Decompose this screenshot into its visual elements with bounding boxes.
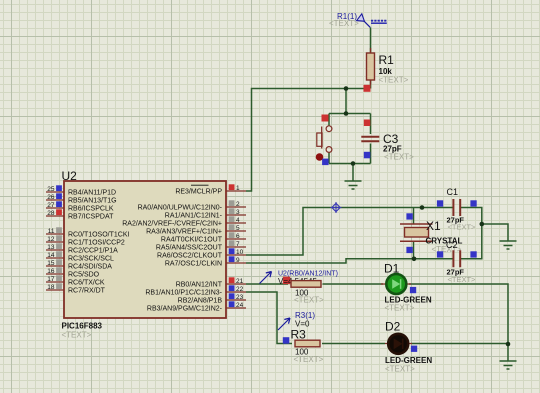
svg-text:RC5/SDO: RC5/SDO	[68, 272, 100, 279]
pin 28 (RB7/ICSPDAT)	[46, 215, 64, 217]
node junction crystal right/ground	[480, 222, 485, 227]
svg-text:RC0/T1OSO/T1CKI: RC0/T1OSO/T1CKI	[68, 232, 130, 239]
svg-text:RC1/T1OSI/CCP2: RC1/T1OSI/CCP2	[68, 240, 125, 247]
button bottom pin state (blue)	[322, 159, 329, 166]
resistor R3 (100)	[295, 340, 320, 347]
pin 13 (RC2/CCP1/P1A)	[46, 249, 64, 251]
svg-text:17: 17	[47, 276, 55, 283]
wire OSC2 net: pin10 to crystal top rail	[246, 208, 453, 256]
D1 right pin state (blue)	[410, 287, 416, 293]
svg-text:24: 24	[236, 302, 244, 309]
wire crystal stubs	[413, 208, 415, 259]
pin 18 (RC7/RX/DT)	[46, 289, 64, 291]
pin 9 (RA7/OSC1/CLKIN)	[226, 262, 246, 264]
pin 21 (RB0/AN12/INT)	[226, 283, 246, 285]
pin 22 (RB1/AN10/P1C/C12IN3-)	[226, 291, 246, 293]
probe dashes value	[371, 20, 386, 22]
C1 left pin state (blue)	[437, 200, 443, 206]
node junction MCLR/button branch	[344, 86, 349, 91]
pin 4 (RA2/AN2/VREF-/CVREF/C2IN+)	[226, 222, 246, 224]
svg-text:1: 1	[236, 185, 240, 192]
capacitor C1	[453, 199, 460, 216]
pin 2 (RA0/AN0/ULPWU/C12IN0-)	[226, 206, 246, 208]
svg-text:<TEXT>: <TEXT>	[448, 275, 477, 284]
pin 17 (RC6/TX/CK)	[46, 281, 64, 283]
push button (reset)	[326, 126, 332, 132]
svg-text:RC3/SCK/SCL: RC3/SCK/SCL	[68, 256, 114, 263]
wire R1 top to probe	[370, 28, 372, 89]
C2 right pin state (blue)	[470, 251, 476, 257]
wire branch to button/C3 rail	[329, 89, 371, 182]
C2 left pin state (blue)	[437, 251, 443, 257]
svg-text:RA2/AN2/VREF-/CVREF/C2IN+: RA2/AN2/VREF-/CVREF/C2IN+	[122, 221, 222, 228]
net marker (diamond crosshair)	[332, 203, 340, 211]
node junction crystal top rail	[420, 205, 425, 210]
ground right of crystal	[500, 241, 517, 249]
svg-text:RC2/CCP1/P1A: RC2/CCP1/P1A	[68, 248, 118, 255]
svg-text:RB1/AN10/P1C/C12IN3-: RB1/AN10/P1C/C12IN3-	[145, 290, 222, 297]
voltage probe U2(RB0/AN12/INT)	[260, 272, 272, 284]
svg-text:27: 27	[47, 202, 55, 209]
svg-text:RA6/OSC2/CLKOUT: RA6/OSC2/CLKOUT	[157, 253, 223, 260]
ground bottom right LEDs	[500, 361, 517, 369]
svg-text:RA5/AN4/SS/C2OUT: RA5/AN4/SS/C2OUT	[156, 245, 223, 252]
svg-text:RA4/T0CKI/C1OUT: RA4/T0CKI/C1OUT	[161, 237, 223, 244]
svg-text:D2: D2	[385, 320, 401, 334]
voltage probe R1(1)	[363, 20, 370, 27]
svg-text:2: 2	[236, 201, 240, 208]
pin 12 (RC1/T1OSI/CCP2)	[46, 241, 64, 243]
svg-text:21: 21	[236, 278, 244, 285]
C1 right pin state (blue)	[470, 200, 476, 206]
svg-text:RB6/ICSPCLK: RB6/ICSPCLK	[68, 206, 114, 213]
pin 27 (RB6/ICSPCLK)	[46, 207, 64, 209]
svg-text:<TEXT>: <TEXT>	[294, 355, 324, 364]
svg-text:16: 16	[47, 268, 55, 275]
svg-text:RC6/TX/CK: RC6/TX/CK	[68, 280, 105, 287]
pin 25 (RB4/AN11/P1D)	[46, 191, 64, 193]
svg-text:10: 10	[236, 249, 244, 256]
svg-text:13: 13	[47, 244, 55, 251]
svg-text:<TEXT>: <TEXT>	[329, 19, 359, 28]
svg-text:15: 15	[47, 260, 55, 267]
button top pin state (red)	[322, 115, 329, 122]
pin 24 (RB3/AN9/PGM/C12IN2-)	[226, 307, 246, 309]
wire pin21 to R2 to D1 to ground	[246, 284, 508, 344]
pin 6 (RA4/T0CKI/C1OUT)	[226, 238, 246, 240]
LED D1 (lit green)	[381, 283, 411, 285]
node junction button rail to ground	[351, 161, 356, 166]
svg-text:PIC16F883: PIC16F883	[62, 322, 103, 331]
wire pin22 to R3 to D2 to ground	[246, 292, 508, 361]
svg-text:D1: D1	[384, 262, 400, 276]
pin 7 (RA5/AN4/SS/C2OUT)	[226, 246, 246, 248]
svg-text:RA3/AN3/VREF+/C1IN+: RA3/AN3/VREF+/C1IN+	[146, 229, 222, 236]
capacitor C3	[361, 136, 379, 138]
svg-text:26: 26	[47, 194, 55, 201]
svg-text:RA0/AN0/ULPWU/C12IN0-: RA0/AN0/ULPWU/C12IN0-	[138, 205, 223, 212]
svg-text:5: 5	[236, 225, 240, 232]
svg-text:<TEXT>: <TEXT>	[385, 364, 415, 373]
svg-text:12: 12	[47, 236, 55, 243]
node junction button rail top	[344, 111, 349, 116]
svg-text:RB0/AN12/INT: RB0/AN12/INT	[176, 282, 223, 289]
svg-text:RB7/ICSPDAT: RB7/ICSPDAT	[68, 214, 114, 221]
pin 16 (RC5/SDO)	[46, 273, 64, 275]
pin 1 (RE3/MCLR/PP)	[226, 190, 246, 192]
resistor R1	[370, 48, 372, 85]
voltage probe R3(1)	[278, 318, 290, 330]
D2 right pin state (blue)	[411, 346, 417, 352]
pin 5 (RA3/AN3/VREF+/C1IN+)	[226, 230, 246, 232]
svg-text:RB2/AN8/P1B: RB2/AN8/P1B	[178, 298, 223, 305]
node junction crystal bottom rail	[412, 257, 417, 262]
svg-text:28: 28	[47, 210, 55, 217]
svg-text:C1: C1	[447, 187, 459, 197]
svg-text:25: 25	[47, 186, 55, 193]
svg-text:X1: X1	[426, 219, 441, 233]
crystal top pin state (blue)	[406, 213, 412, 219]
svg-text:<TEXT>: <TEXT>	[448, 223, 477, 232]
pin 11 (RC0/T1OSO/T1CKI)	[46, 233, 64, 235]
svg-text:RB3/AN9/PGM/C12IN2-: RB3/AN9/PGM/C12IN2-	[147, 306, 223, 313]
svg-text:11: 11	[48, 228, 55, 235]
svg-text:6: 6	[236, 233, 240, 240]
svg-text:22: 22	[236, 286, 244, 293]
svg-text:RA7/OSC1/CLKIN: RA7/OSC1/CLKIN	[165, 261, 222, 268]
svg-text:RB5/AN13/T1G: RB5/AN13/T1G	[68, 198, 117, 205]
pin 26 (RB5/AN13/T1G)	[46, 199, 64, 201]
svg-text:<TEXT>: <TEXT>	[62, 331, 92, 340]
svg-text:U2: U2	[62, 169, 78, 183]
pin 23 (RB2/AN8/P1B)	[226, 299, 246, 301]
crystal X1	[400, 224, 433, 241]
svg-text:RA1/AN1/C12IN1-: RA1/AN1/C12IN1-	[165, 213, 223, 220]
wire OSC1 net: pin9 to crystal bottom rail	[246, 259, 453, 263]
svg-text:23: 23	[236, 294, 244, 301]
crystal bottom pin state (blue)	[406, 247, 412, 253]
svg-text:14: 14	[47, 252, 55, 259]
capacitor C2	[453, 250, 460, 267]
pin 10 (RA6/OSC2/CLKOUT)	[226, 254, 246, 256]
svg-text:<TEXT>: <TEXT>	[384, 153, 414, 162]
svg-text:RE3/MCLR/PP: RE3/MCLR/PP	[175, 189, 222, 196]
svg-text:<TEXT>: <TEXT>	[379, 76, 409, 85]
R3 left pin state (blue)	[283, 337, 290, 344]
pin 14 (RC3/SCK/SCL)	[46, 257, 64, 259]
svg-text:RC4/SDI/SDA: RC4/SDI/SDA	[68, 264, 112, 271]
R2 left pin state (red)	[283, 277, 291, 285]
svg-text:18: 18	[47, 284, 55, 291]
resistor R2 (100)	[291, 281, 321, 288]
pin 15 (RC4/SDI/SDA)	[46, 265, 64, 267]
svg-text:R1: R1	[379, 53, 395, 67]
svg-text:9: 9	[236, 257, 240, 264]
svg-text:7: 7	[236, 241, 240, 248]
svg-text:<TEXT>: <TEXT>	[294, 295, 324, 304]
overline on MCLR	[191, 184, 209, 186]
svg-text:R3: R3	[291, 328, 307, 342]
svg-text:RC7/RX/DT: RC7/RX/DT	[68, 288, 106, 295]
wire MCLR net: pin1 to R1 bottom	[246, 89, 371, 192]
C3 bottom pin state (blue)	[364, 152, 371, 159]
svg-text:3: 3	[236, 209, 240, 216]
R1 bottom pin state square (red)	[364, 85, 371, 92]
ground under button/C3	[345, 181, 362, 189]
C3 top pin state (red)	[364, 120, 371, 127]
svg-text:<TEXT>: <TEXT>	[385, 303, 415, 312]
LED D2 (off, dark)	[385, 343, 412, 345]
svg-text:4: 4	[236, 217, 240, 224]
pin 3 (RA1/AN1/C12IN1-)	[226, 214, 246, 216]
svg-text:C2: C2	[446, 240, 458, 250]
button press dot	[316, 153, 324, 161]
wire crystal right vertical + ground branch	[461, 208, 509, 259]
microcontroller U2 PIC16F883 body	[64, 181, 226, 318]
svg-text:RB4/AN11/P1D: RB4/AN11/P1D	[68, 190, 116, 197]
node junction LED ground vertical	[506, 342, 511, 347]
